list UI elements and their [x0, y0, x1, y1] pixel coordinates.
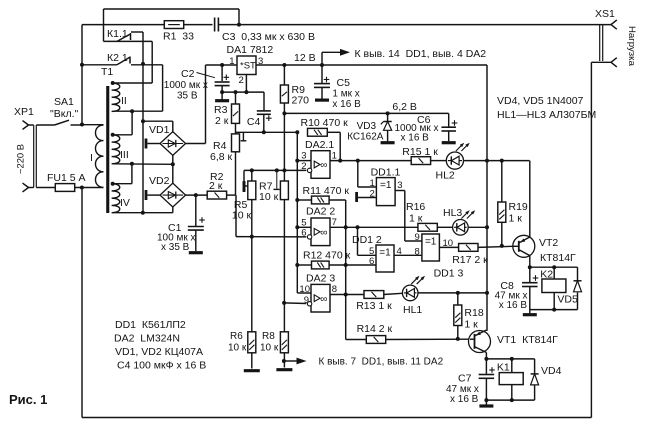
svg-text:VD5: VD5: [557, 294, 578, 306]
svg-text:III: III: [120, 149, 129, 161]
relay K1: [497, 359, 523, 400]
node HL2 column: [485, 159, 489, 163]
node R3 top: [234, 90, 238, 104]
ground C7: [479, 404, 493, 407]
node R5 R6 tap: [250, 235, 254, 239]
svg-text:~220 В: ~220 В: [15, 144, 26, 174]
node VD2 output: [194, 193, 198, 197]
wire 6,2V rail: [284, 101, 448, 113]
resistor R19: [498, 161, 528, 225]
svg-text:R8: R8: [262, 331, 275, 342]
wire DA2.3 output: [330, 294, 364, 296]
node winding III top: [111, 133, 115, 137]
wire R3 R4 junction: [235, 123, 237, 133]
wire 12V rail: [256, 52, 487, 65]
svg-text:I: I: [90, 152, 93, 164]
resistor R15: [402, 146, 438, 165]
node DA2.2 pin5: [295, 225, 299, 229]
ground C6: [442, 141, 456, 144]
op-amp DA2.1: [297, 139, 337, 178]
svg-text:К2 1: К2 1: [107, 52, 128, 64]
svg-text:C7: C7: [458, 373, 472, 385]
svg-text:8: 8: [415, 246, 420, 257]
svg-text:270: 270: [292, 95, 310, 107]
node R19 top: [500, 159, 504, 163]
wire R11 leads: [297, 200, 345, 340]
svg-text:х 35 В: х 35 В: [161, 242, 190, 253]
note leds: [497, 109, 596, 121]
ground C2: [215, 92, 229, 101]
svg-text:1000 мк х: 1000 мк х: [164, 80, 208, 91]
node out7 R11: [344, 225, 348, 229]
svg-text:DD1 2: DD1 2: [352, 234, 382, 246]
wire phase down: [81, 25, 83, 125]
wire VD2 bottom: [172, 207, 174, 213]
svg-text:SA1: SA1: [54, 96, 74, 108]
node C7 gnd: [484, 398, 488, 402]
svg-text:КТ814Г: КТ814Г: [540, 252, 576, 264]
svg-text:DA2 2: DA2 2: [306, 206, 335, 218]
wire VT1 emitter: [485, 329, 487, 332]
svg-text:х 16 В: х 16 В: [401, 133, 430, 144]
svg-text:C5: C5: [337, 77, 351, 89]
zener VD3: [347, 113, 392, 142]
svg-text:VD4, VD5 1N4007: VD4, VD5 1N4007: [497, 95, 584, 107]
svg-text:HL2: HL2: [436, 170, 455, 182]
svg-text:8: 8: [332, 284, 337, 295]
winding III: [112, 135, 129, 164]
svg-text:35 В: 35 В: [177, 91, 198, 102]
wire K1.1 riser: [142, 32, 144, 64]
wire VD1 output riser: [186, 65, 237, 144]
svg-text:R14 2 к: R14 2 к: [357, 323, 393, 335]
node K1 coil bottom: [510, 398, 514, 402]
node HL1 R18: [456, 291, 460, 295]
winding II: [112, 83, 127, 111]
svg-text:DA2 LM324N: DA2 LM324N: [114, 333, 180, 345]
LED HL1: [402, 276, 425, 316]
svg-text:7: 7: [332, 217, 337, 228]
transformer T1 label: [101, 66, 113, 78]
wire R1 to C3: [184, 24, 213, 26]
gate DD1.1: [370, 167, 403, 206]
svg-text:КС162А: КС162А: [347, 132, 384, 143]
LED HL3: [443, 207, 475, 235]
terminal VD2 left: [146, 190, 160, 200]
wire HL1 right: [418, 292, 487, 294]
node R7 wiper top: [275, 168, 279, 172]
node K2 coil bottom: [552, 308, 556, 312]
contact K2.1: [82, 52, 163, 65]
svg-text:DA2 3: DA2 3: [306, 273, 335, 285]
wire winding II bottom link: [113, 65, 163, 111]
node C5 top: [320, 63, 324, 67]
wire R9 bottom: [283, 103, 285, 170]
ground C5: [315, 98, 329, 101]
transistor VT1: [469, 330, 559, 353]
svg-text:C2: C2: [181, 68, 195, 80]
wire gnd bus R3 C4: [222, 92, 264, 111]
resistor R13: [356, 291, 392, 312]
node C4 bottom: [262, 130, 266, 134]
svg-text:IV: IV: [120, 197, 130, 209]
wire DA2.3 pin9: [284, 302, 306, 305]
wire C3 to XS1: [218, 24, 611, 26]
ground R6: [244, 353, 260, 371]
connector XP1: [14, 106, 36, 192]
svg-text:HL1—HL3 АЛ307БМ: HL1—HL3 АЛ307БМ: [497, 109, 596, 121]
wire DA2.1 pin2: [244, 169, 306, 171]
wire VD2 top: [172, 164, 174, 183]
wire top bypass rail: [104, 9, 240, 41]
wire VD2 output: [186, 194, 208, 196]
wire R13 to HL1: [384, 293, 402, 294]
svg-text:10 к: 10 к: [259, 191, 279, 203]
node FU1 junction: [80, 186, 84, 190]
svg-text:DA2.1: DA2.1: [305, 139, 334, 151]
node HL1 column: [485, 291, 489, 295]
svg-text:С4 100 мкФ х 16 В: С4 100 мкФ х 16 В: [117, 360, 206, 372]
svg-text:6: 6: [301, 228, 306, 239]
wire R18 bottom: [457, 326, 459, 339]
resistor R16: [406, 201, 437, 231]
node K1 coil top: [510, 357, 514, 361]
winding IV: [112, 184, 130, 213]
node K contacts common: [141, 62, 145, 66]
svg-text:R16: R16: [406, 201, 425, 213]
wire III-IV tap riser: [113, 164, 132, 184]
svg-text:R17 2 к: R17 2 к: [452, 254, 488, 266]
svg-text:R10 470 к: R10 470 к: [301, 117, 349, 129]
svg-text:3: 3: [301, 151, 306, 162]
figure caption: [9, 392, 47, 407]
svg-text:6: 6: [369, 256, 374, 267]
resistor R10: [301, 117, 349, 136]
wire DD1.2 pin5 link: [358, 227, 377, 255]
node DD1.1 tap: [356, 159, 360, 163]
resistor R4: [210, 134, 240, 163]
terminal pin2 bar: [243, 170, 245, 191]
svg-text:Нагрузка: Нагрузка: [626, 26, 637, 67]
svg-text:3: 3: [397, 180, 402, 191]
transistor VT2: [513, 235, 576, 264]
capacitor C4: [247, 111, 272, 132]
svg-text:=1: =1: [379, 248, 391, 259]
wire VD1 bottom: [172, 155, 174, 164]
node VD1 input: [141, 119, 145, 123]
rectifier VD2: [149, 175, 186, 207]
svg-text:2 к: 2 к: [215, 115, 229, 127]
node R9 top: [282, 63, 286, 67]
wire HL2 right: [464, 160, 530, 162]
svg-text:10 к: 10 к: [232, 210, 252, 222]
wire R19 bottom: [501, 222, 503, 246]
svg-text:VD2: VD2: [149, 175, 170, 187]
ground C8: [523, 313, 537, 316]
wire DA2.2 output: [330, 226, 418, 228]
svg-text:1 к: 1 к: [509, 213, 523, 225]
wire load return: [590, 62, 592, 417]
svg-text:DD1 К561ЛП2: DD1 К561ЛП2: [115, 319, 186, 331]
wire VT2 emitter: [529, 161, 531, 237]
wire winding II top link: [113, 41, 153, 83]
resistor R5: [232, 170, 256, 221]
capacitor C5: [314, 65, 361, 110]
terminal DD1.1 pin2: [357, 192, 377, 202]
wire II-III tap riser: [113, 111, 132, 135]
svg-text:VD4: VD4: [541, 365, 562, 377]
svg-text:FU1 5 А: FU1 5 А: [47, 172, 86, 184]
wire R8 bottom: [283, 353, 285, 368]
note diodes: [497, 95, 584, 107]
diode VD4: [531, 359, 562, 400]
wire DA2.1 output: [330, 160, 411, 162]
node R7 R8 tap: [282, 301, 286, 305]
op-amp DA2.2: [297, 206, 337, 246]
svg-text:DD1 3: DD1 3: [434, 268, 464, 280]
svg-text:T1: T1: [101, 66, 113, 78]
transformer core: [106, 86, 109, 213]
svg-text:R13 1 к: R13 1 к: [356, 300, 392, 312]
wire III bottom: [113, 163, 173, 166]
wire K2 top: [530, 266, 578, 268]
svg-text:10 к: 10 к: [228, 343, 247, 354]
svg-text:х 16 В: х 16 В: [332, 99, 361, 110]
LED HL2: [436, 143, 470, 182]
node top junction: [237, 23, 241, 27]
wire DD1.3 output: [439, 246, 458, 248]
node R12 right: [344, 263, 348, 267]
capacitor C7: [446, 359, 495, 405]
node R10 left: [295, 130, 299, 134]
node R8 gnd arrow: [282, 359, 286, 363]
svg-text:6,2 В: 6,2 В: [392, 101, 417, 113]
svg-text:1 мк х: 1 мк х: [332, 89, 359, 100]
svg-text:R19: R19: [509, 201, 528, 213]
diode VD5: [557, 267, 581, 309]
node VD3 top: [386, 111, 390, 115]
wire input column: [296, 132, 298, 293]
node R7 top: [282, 168, 286, 172]
svg-text:DA1 7812: DA1 7812: [227, 44, 274, 56]
node 6V2 tap: [282, 111, 286, 115]
resistor R14: [357, 323, 393, 343]
gate DD1.2: [352, 234, 402, 272]
svg-text:Рис. 1: Рис. 1: [9, 392, 47, 407]
capacitor C1: [157, 195, 205, 253]
wire bottom rail: [82, 417, 591, 419]
node R11 left: [295, 198, 299, 202]
svg-text:R6: R6: [230, 331, 243, 342]
ground VD3: [381, 141, 395, 144]
node VT1 base: [456, 337, 460, 341]
wire DD1.1 output: [395, 191, 422, 242]
relay K2: [540, 267, 566, 309]
svg-text:∞: ∞: [320, 294, 327, 305]
svg-text:12 В: 12 В: [294, 52, 316, 64]
svg-text:HL1: HL1: [403, 304, 422, 316]
svg-text:1: 1: [332, 151, 337, 162]
svg-text:1 к: 1 к: [464, 319, 478, 331]
node DA2.1 pin3: [295, 159, 299, 163]
resistor R7: [259, 170, 288, 203]
wire DD1 gnd arrow: [284, 357, 444, 368]
svg-text:К1.1: К1.1: [107, 28, 128, 40]
node VD1-VD2 junction: [171, 162, 175, 166]
svg-text:6,8 к: 6,8 к: [210, 151, 233, 163]
node out8: [344, 293, 348, 297]
wire DD1.2 output: [394, 254, 422, 256]
wire DA1 pin2: [245, 75, 247, 93]
svg-text:XS1: XS1: [595, 8, 615, 20]
capacitor C6: [395, 113, 458, 143]
op-amp DA2.3: [297, 273, 337, 313]
resistor R9: [280, 65, 309, 107]
node winding IV top: [111, 182, 115, 186]
resistor R2: [207, 171, 226, 199]
svg-text:10: 10: [299, 284, 310, 295]
node HL3 column: [485, 225, 489, 229]
wire 12V drop riser: [486, 65, 488, 161]
node VT2 base: [500, 244, 504, 248]
svg-text:II: II: [121, 95, 127, 107]
svg-text:VD3: VD3: [357, 121, 377, 132]
wire mains phase rail: [82, 24, 164, 26]
wire R15 to HL2: [431, 160, 447, 162]
node VT2 collector: [528, 265, 532, 269]
ground R8: [276, 368, 292, 371]
node K2 coil top: [552, 265, 556, 269]
switch SA1: [36, 96, 82, 125]
svg-text:VT1 КТ814Г: VT1 КТ814Г: [497, 334, 558, 346]
svg-text:C3 0,33 мк х 630 В: C3 0,33 мк х 630 В: [222, 31, 315, 43]
wire VT1 collector: [485, 353, 487, 359]
trimmer tap R4: [241, 132, 247, 141]
svg-text:9: 9: [415, 232, 420, 243]
svg-text:К выв. 14 DD1, выв. 4 DA2: К выв. 14 DD1, выв. 4 DA2: [355, 48, 487, 60]
node R5 top: [250, 168, 254, 172]
connector XS1: [591, 8, 637, 67]
wire R17 to VT2: [478, 246, 513, 247]
wire R7 down: [283, 200, 285, 332]
winding I: [82, 125, 104, 188]
svg-text:R1 33: R1 33: [163, 31, 194, 43]
gate DD1.3: [415, 232, 464, 280]
svg-text:K1: K1: [497, 362, 510, 374]
ground C1: [189, 251, 203, 254]
wire K1 bottom: [486, 399, 534, 401]
svg-text:∞: ∞: [320, 227, 327, 238]
parts list: [114, 319, 206, 372]
node winding II bottom: [130, 109, 134, 113]
wire LED column: [486, 161, 488, 331]
svg-text:VD1, VD2 КЦ407А: VD1, VD2 КЦ407А: [115, 346, 203, 358]
capacitor C3: [215, 18, 315, 44]
wire K2 bottom: [530, 309, 578, 311]
node III bottom tap: [130, 162, 134, 166]
resistor R12: [303, 250, 351, 269]
resistor R6: [228, 331, 256, 354]
node winding II top: [111, 81, 115, 85]
wire threshold bus: [236, 131, 298, 133]
node R12 left: [295, 263, 299, 267]
capacitor C2: [164, 65, 230, 102]
node C2 bottom: [220, 90, 224, 94]
wire contacts riser down: [142, 64, 144, 213]
svg-text:∞: ∞: [320, 160, 327, 171]
svg-text:R11 470 к: R11 470 к: [303, 185, 350, 197]
wire HL3 right: [468, 226, 487, 228]
svg-text:*ST: *ST: [240, 61, 256, 72]
capacitor C8: [495, 267, 539, 313]
resistor R3: [214, 104, 240, 127]
wire R14 node: [346, 339, 367, 341]
svg-text:VT2: VT2: [539, 237, 558, 249]
svg-text:R18: R18: [464, 307, 483, 319]
wire R16 to HL3: [437, 226, 452, 228]
wire R10 feedback: [327, 132, 340, 160]
wire to DD1 supply arrow: [322, 48, 486, 65]
resistor R17: [452, 244, 488, 267]
wire VD1 AC input: [143, 121, 173, 131]
svg-text:=1: =1: [380, 180, 392, 191]
wire R12 leads: [297, 264, 376, 266]
svg-text:=1: =1: [425, 237, 437, 248]
node IV bottom: [141, 211, 145, 215]
wire DD1.1 pin1: [358, 161, 377, 187]
wiper tap R7: [273, 170, 279, 189]
svg-text:R12 470 к: R12 470 к: [303, 250, 351, 262]
svg-text:C4: C4: [247, 116, 261, 128]
resistor R18: [454, 293, 484, 331]
resistor R8: [260, 331, 288, 354]
terminal VD1 left: [146, 139, 160, 149]
svg-text:2 к: 2 к: [209, 180, 223, 192]
node R10 out: [338, 159, 342, 163]
svg-text:К выв. 7 DD1, выв. 11 DA2: К выв. 7 DD1, выв. 11 DA2: [319, 357, 444, 368]
wire VT2 collector: [529, 256, 531, 268]
wire DA2.2 pin6 link: [236, 195, 306, 237]
svg-text:10 к: 10 к: [260, 343, 279, 354]
wire K1 top: [486, 358, 534, 360]
contact K1.1: [104, 28, 153, 41]
svg-text:х 16 В: х 16 В: [450, 394, 479, 405]
wire IV bottom: [113, 212, 173, 214]
svg-text:HL3: HL3: [443, 207, 462, 219]
resistor R11: [303, 185, 350, 204]
fuse FU1: [36, 172, 103, 191]
rectifier VD1: [149, 124, 186, 155]
node out7 DD1.2: [356, 225, 360, 229]
node VT1 collector: [484, 357, 488, 361]
terminal R5 bar: [244, 182, 248, 192]
svg-text:2: 2: [239, 75, 244, 86]
svg-text:х 16 В: х 16 В: [499, 300, 528, 311]
node SA1 junction: [80, 123, 84, 127]
regulator DA1 7812: [227, 44, 274, 86]
resistor R1: [163, 21, 194, 43]
svg-text:VD1: VD1: [149, 124, 170, 136]
svg-text:"Вкл.": "Вкл.": [50, 108, 78, 120]
node DA1 pin2 gnd: [244, 90, 248, 94]
wire R14 to VT1: [386, 338, 470, 340]
wire R4 to R2: [227, 152, 236, 195]
wire R5 down: [251, 200, 253, 332]
svg-text:1: 1: [229, 56, 234, 67]
node K2.1 left: [80, 63, 84, 67]
svg-text:ХР1: ХР1: [14, 106, 34, 118]
svg-text:DD1.1: DD1.1: [371, 167, 401, 179]
